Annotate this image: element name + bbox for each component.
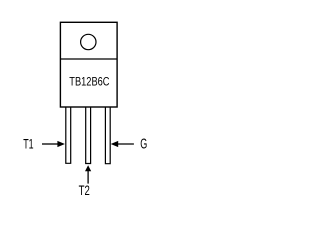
svg-text:G: G [140,137,147,153]
svg-text:T1: T1 [23,136,34,152]
svg-text:TB12B6C: TB12B6C [69,77,109,89]
svg-text:T2: T2 [79,182,90,198]
